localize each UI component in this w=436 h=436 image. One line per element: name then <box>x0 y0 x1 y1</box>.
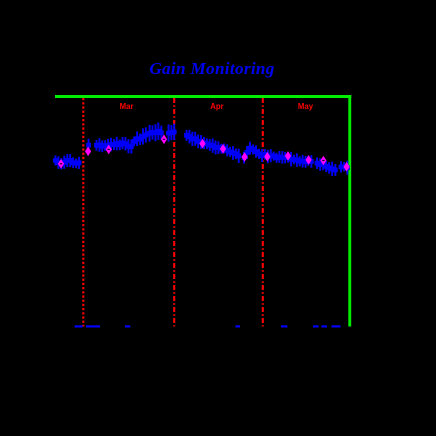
svg-text:Mar: Mar <box>120 102 134 111</box>
red dash-dot month line (May 1) <box>262 98 264 327</box>
green top axis line <box>55 95 351 98</box>
blue gain data series with error bars <box>53 123 350 177</box>
red dotted month line (Mar 1) <box>82 98 84 327</box>
blue bottom reference dashes <box>75 325 341 327</box>
green right axis line <box>348 95 351 327</box>
svg-text:Gain Monitoring: Gain Monitoring <box>149 59 274 78</box>
svg-text:Apr: Apr <box>210 102 223 111</box>
magenta open-diamond markers <box>58 135 350 172</box>
red dash-dot month line (Apr 1) <box>173 98 175 327</box>
svg-text:May: May <box>298 102 314 111</box>
